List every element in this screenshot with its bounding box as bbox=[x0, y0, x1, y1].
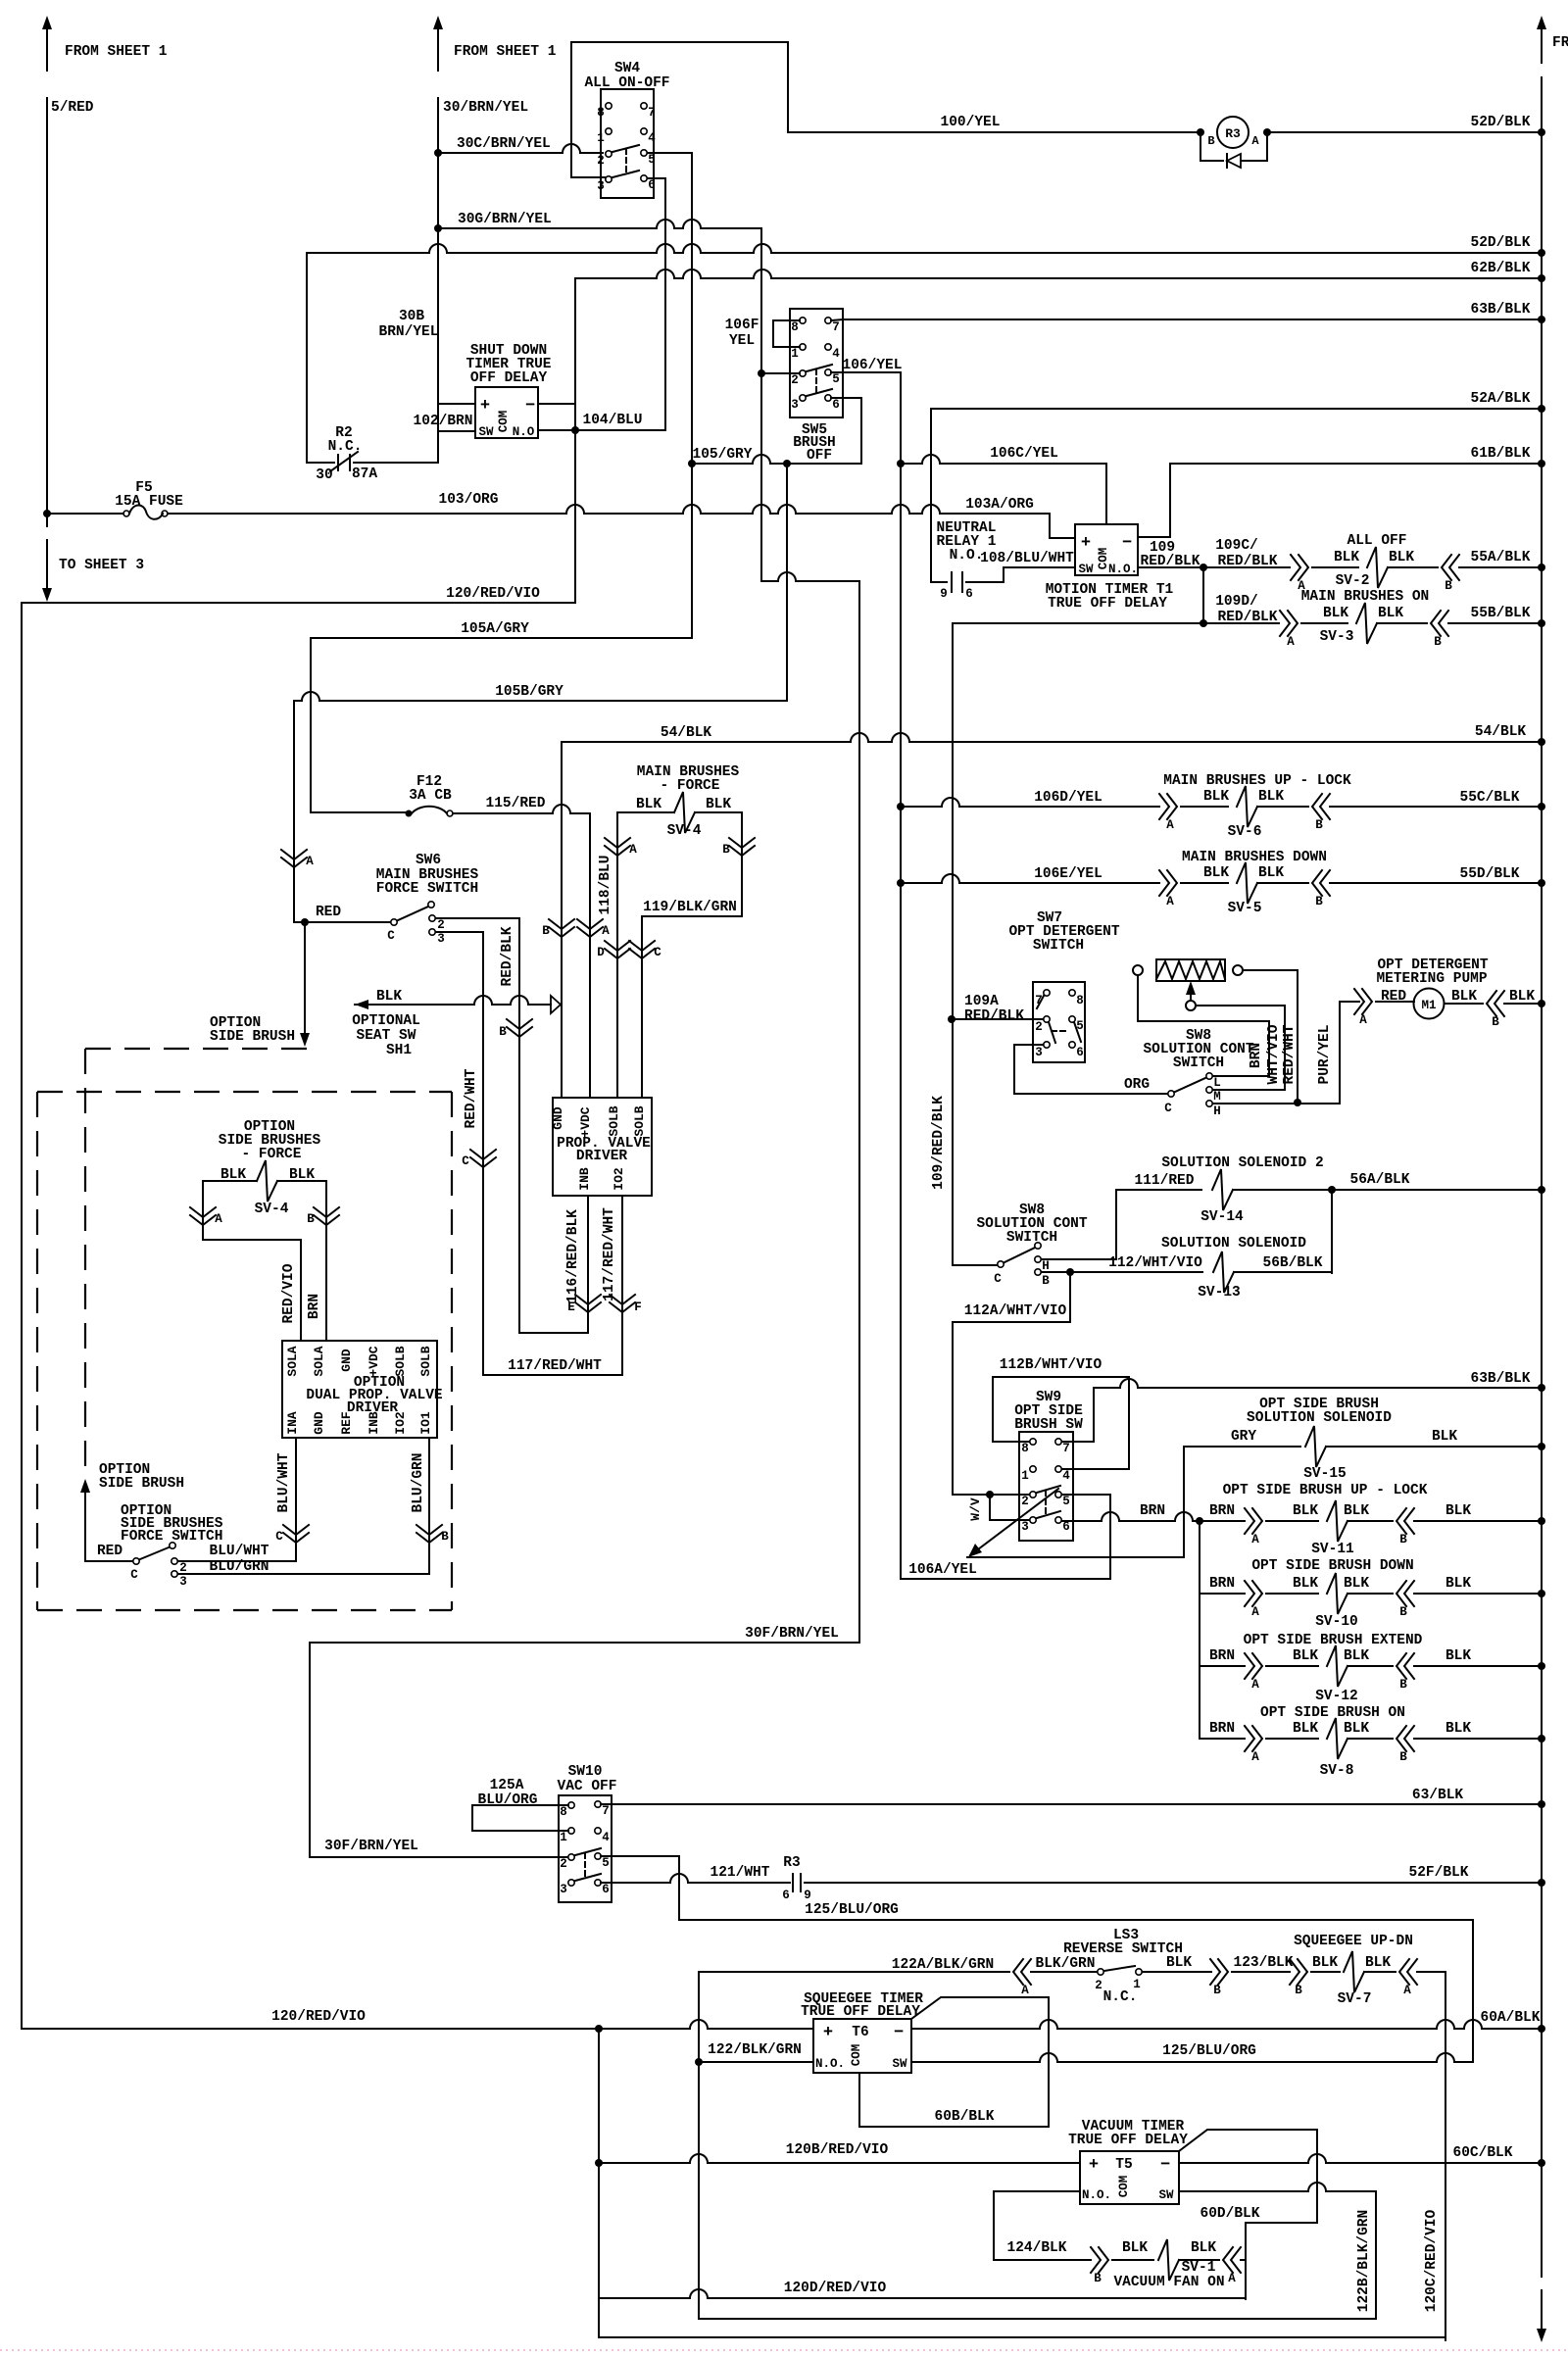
svg-text:BLK: BLK bbox=[1293, 1503, 1318, 1519]
svg-text:B: B bbox=[1399, 1678, 1407, 1692]
svg-text:WHT/VIO: WHT/VIO bbox=[1266, 1024, 1282, 1084]
wire SV-10 segs bbox=[1266, 1593, 1318, 1595]
svg-text:T6: T6 bbox=[852, 2025, 868, 2040]
svg-text:SW: SW bbox=[1158, 2188, 1174, 2202]
svg-text:SOLUTION SOLENOID: SOLUTION SOLENOID bbox=[1161, 1236, 1306, 1252]
svg-text:SOLUTION SOLENOID: SOLUTION SOLENOID bbox=[1247, 1410, 1392, 1426]
svg-text:BLK: BLK bbox=[1389, 550, 1414, 565]
svg-text:A: A bbox=[602, 924, 610, 938]
wire BLU/WHT bbox=[178, 1560, 296, 1562]
wire 112/WHT/VIO bbox=[1042, 1271, 1202, 1273]
wire 30G corner vertical bbox=[760, 228, 762, 581]
pin SW8L-C bbox=[998, 1261, 1004, 1267]
wire SOLB drop bbox=[641, 916, 643, 1098]
svg-text:7: 7 bbox=[1062, 1442, 1070, 1455]
svg-text:30/BRN/YEL: 30/BRN/YEL bbox=[443, 100, 528, 116]
svg-text:B: B bbox=[1492, 1015, 1499, 1029]
svg-text:122A/BLK/GRN: 122A/BLK/GRN bbox=[892, 1957, 994, 1973]
svg-text:+VDC: +VDC bbox=[367, 1346, 381, 1376]
svg-text:2: 2 bbox=[560, 1857, 567, 1871]
node bus junction bbox=[1538, 564, 1545, 571]
svg-text:BLK: BLK bbox=[1334, 550, 1359, 565]
svg-text:3: 3 bbox=[1021, 1520, 1029, 1534]
contact SW8L arm bbox=[1004, 1248, 1035, 1262]
wire 125 drop bbox=[1472, 1920, 1474, 2061]
contact LS3 arm bbox=[1104, 1966, 1135, 1971]
svg-text:DRIVER: DRIVER bbox=[576, 1149, 628, 1164]
svg-text:106E/YEL: 106E/YEL bbox=[1034, 866, 1102, 882]
wire 117 return bbox=[483, 1374, 622, 1376]
svg-text:8: 8 bbox=[560, 1805, 567, 1819]
svg-text:RED/BLK: RED/BLK bbox=[500, 926, 515, 986]
node bus junction bbox=[1538, 128, 1545, 136]
node bus junction bbox=[1538, 1443, 1545, 1450]
svg-text:SW: SW bbox=[1078, 563, 1094, 576]
wire GRY row bbox=[1184, 1446, 1300, 1448]
svg-text:BLK: BLK bbox=[1365, 1955, 1391, 1971]
wire 120B/RED/VIO bbox=[599, 2154, 1080, 2163]
svg-text:SW: SW bbox=[892, 2057, 907, 2071]
wire 120/RED/VIO bottom bbox=[22, 2020, 813, 2029]
svg-text:A: A bbox=[1251, 1750, 1259, 1764]
pin SW7-5 bbox=[1069, 1016, 1075, 1022]
wire SW10 8-1 bracket bbox=[472, 1805, 568, 1831]
svg-text:FR: FR bbox=[1552, 35, 1568, 51]
pin SW4-3 bbox=[606, 176, 612, 182]
wire 61B/BLK bbox=[1170, 463, 1542, 465]
svg-text:7: 7 bbox=[648, 106, 656, 120]
wire 106/YEL to pin5 bbox=[901, 1578, 1110, 1580]
svg-text:55B/BLK: 55B/BLK bbox=[1471, 606, 1531, 621]
svg-text:BLK: BLK bbox=[1445, 1721, 1471, 1737]
wire SV-3 segs bbox=[1301, 622, 1347, 624]
node bus junction bbox=[1538, 879, 1545, 887]
svg-text:1: 1 bbox=[597, 131, 605, 145]
connector C (119) bbox=[629, 941, 655, 958]
svg-text:SV-12: SV-12 bbox=[1315, 1689, 1358, 1704]
border dotted bbox=[0, 2349, 1568, 2351]
svg-text:103/ORG: 103/ORG bbox=[439, 492, 499, 508]
svg-text:120D/RED/VIO: 120D/RED/VIO bbox=[784, 2281, 887, 2296]
svg-text:106A/YEL: 106A/YEL bbox=[908, 1562, 977, 1578]
wire 100/YEL bbox=[788, 131, 1200, 133]
pin SW7-6 bbox=[1069, 1042, 1075, 1048]
solenoid SV-15 bolt bbox=[1305, 1426, 1326, 1467]
fuse F5 bbox=[47, 513, 123, 515]
svg-text:N.O.: N.O. bbox=[950, 548, 984, 564]
svg-text:INA: INA bbox=[285, 1411, 300, 1435]
wire 52A/BLK bbox=[931, 408, 1542, 410]
svg-text:N.O.: N.O. bbox=[1082, 2188, 1111, 2202]
svg-text:IO1: IO1 bbox=[418, 1411, 433, 1435]
svg-text:SV-7: SV-7 bbox=[1338, 1991, 1372, 2007]
pin opt3 bbox=[171, 1571, 177, 1577]
wire jog 593 bbox=[761, 572, 859, 581]
svg-text:OPT SIDE BRUSH EXTEND: OPT SIDE BRUSH EXTEND bbox=[1244, 1633, 1423, 1648]
wire SV-11 segs bbox=[1266, 1520, 1318, 1522]
wire 115/RED bbox=[453, 805, 590, 813]
wire T1 minus up bbox=[1138, 464, 1170, 537]
contact SV-3 bbox=[1280, 611, 1298, 636]
svg-text:OPTIONAL: OPTIONAL bbox=[352, 1013, 420, 1029]
svg-text:OPT SIDE BRUSH UP - LOCK: OPT SIDE BRUSH UP - LOCK bbox=[1223, 1483, 1428, 1498]
svg-text:GND: GND bbox=[312, 1411, 326, 1435]
wire RED/BLK bbox=[436, 917, 519, 919]
svg-text:A: A bbox=[1403, 1984, 1411, 1997]
svg-text:+: + bbox=[823, 2024, 833, 2042]
pin SW10-5 bbox=[595, 1853, 601, 1859]
node R3-A bbox=[1263, 128, 1271, 136]
pin SW10-1 bbox=[568, 1828, 574, 1834]
node 120 junction bbox=[595, 2025, 603, 2033]
node 106D junction bbox=[897, 803, 905, 810]
node bus junction bbox=[1538, 1800, 1545, 1808]
pin SW10-7 bbox=[595, 1801, 601, 1807]
svg-text:MAIN BRUSHES ON: MAIN BRUSHES ON bbox=[1301, 589, 1430, 605]
svg-text:54/BLK: 54/BLK bbox=[1475, 724, 1527, 740]
pot detergent resistor bbox=[1156, 959, 1225, 981]
connector B (116) bbox=[507, 1019, 532, 1037]
contact SV-12 bbox=[1245, 1653, 1262, 1679]
motor M1 bbox=[1414, 989, 1445, 1019]
svg-text:SOLA: SOLA bbox=[285, 1346, 300, 1376]
svg-text:B: B bbox=[1094, 2272, 1102, 2285]
pin SW4-6 bbox=[641, 175, 647, 181]
wire 122/BLK/GRN bbox=[699, 2061, 813, 2063]
svg-text:105A/GRY: 105A/GRY bbox=[461, 621, 529, 637]
wire from-sheet arrow (right) bbox=[1541, 27, 1543, 63]
svg-text:119/BLK/GRN: 119/BLK/GRN bbox=[643, 900, 737, 915]
wire RED/WHT drop bbox=[482, 932, 484, 1375]
svg-text:SOLUTION SOLENOID 2: SOLUTION SOLENOID 2 bbox=[1161, 1155, 1323, 1171]
svg-text:BLK: BLK bbox=[1344, 1503, 1369, 1519]
svg-text:60C/BLK: 60C/BLK bbox=[1453, 2145, 1513, 2161]
node 122 junction bbox=[695, 2058, 703, 2066]
svg-text:3: 3 bbox=[437, 932, 445, 946]
svg-text:SV-13: SV-13 bbox=[1198, 1285, 1241, 1301]
svg-text:BLK: BLK bbox=[376, 989, 402, 1005]
svg-text:105/GRY: 105/GRY bbox=[693, 447, 753, 463]
contact SW5 arm 2-5 bbox=[807, 365, 832, 371]
svg-text:120C/RED/VIO: 120C/RED/VIO bbox=[1424, 2209, 1440, 2312]
switch SW7 box bbox=[1033, 982, 1085, 1062]
pin SW8-L bbox=[1206, 1073, 1212, 1079]
svg-text:52F/BLK: 52F/BLK bbox=[1409, 1865, 1469, 1881]
pin SW9-6 bbox=[1055, 1517, 1061, 1523]
svg-text:SV-15: SV-15 bbox=[1303, 1466, 1347, 1482]
svg-text:RED/VIO: RED/VIO bbox=[281, 1263, 297, 1323]
svg-text:5: 5 bbox=[648, 153, 656, 167]
pin SW8-C bbox=[1168, 1091, 1174, 1097]
svg-text:SH1: SH1 bbox=[386, 1043, 412, 1058]
svg-text:56A/BLK: 56A/BLK bbox=[1350, 1172, 1410, 1188]
wire 118/BLU drop bbox=[616, 812, 618, 1098]
wire 60D loop bbox=[1245, 2223, 1247, 2299]
svg-text:YEL: YEL bbox=[729, 333, 755, 349]
node 56A junction bbox=[1328, 1186, 1336, 1194]
pin SW9-5 bbox=[1055, 1492, 1061, 1497]
wire option B drop bbox=[325, 1181, 327, 1341]
wire GRY riser bbox=[1183, 1447, 1185, 1557]
wire 52D/BLK rail bbox=[307, 244, 1542, 253]
svg-text:SWITCH: SWITCH bbox=[1006, 1230, 1057, 1246]
svg-text:D: D bbox=[597, 946, 605, 959]
svg-text:52D/BLK: 52D/BLK bbox=[1471, 115, 1531, 130]
contact R2 N.C. bbox=[307, 462, 334, 464]
svg-text:SIDE BRUSH: SIDE BRUSH bbox=[99, 1476, 184, 1492]
contact 123-B bbox=[1210, 1959, 1228, 1985]
timer T5 box bbox=[1080, 2151, 1179, 2204]
pin SW10-3 bbox=[568, 1880, 574, 1886]
wire 106/YEL out bbox=[831, 371, 901, 373]
svg-text:A: A bbox=[1287, 635, 1295, 649]
wire SW7 pin3 out bbox=[1014, 1045, 1167, 1094]
svg-text:118/BLU: 118/BLU bbox=[598, 856, 613, 915]
pin SW6-2 bbox=[429, 915, 435, 921]
contact option arm bbox=[140, 1547, 169, 1559]
pin SW9-8 bbox=[1030, 1439, 1036, 1445]
wire 112A path bbox=[1069, 1272, 1071, 1322]
contact SV-10 bbox=[1245, 1581, 1262, 1606]
node bus junction bbox=[1538, 316, 1545, 323]
wire 54/BLK rail bbox=[562, 733, 1542, 742]
wire 5/RED vertical bus bbox=[46, 98, 48, 526]
svg-text:3: 3 bbox=[179, 1575, 187, 1589]
svg-text:3: 3 bbox=[597, 179, 605, 193]
svg-text:A: A bbox=[306, 855, 314, 868]
svg-text:BLK: BLK bbox=[1258, 865, 1284, 881]
svg-text:6: 6 bbox=[965, 587, 973, 601]
node 109D junction bbox=[1200, 619, 1207, 627]
svg-text:8: 8 bbox=[791, 320, 799, 334]
node 109 junction bbox=[1200, 564, 1207, 571]
svg-text:108/BLU/WHT: 108/BLU/WHT bbox=[980, 551, 1074, 566]
svg-text:SV-14: SV-14 bbox=[1200, 1209, 1244, 1225]
contact SW9 arm 3 bbox=[1037, 1511, 1060, 1518]
svg-text:GRY: GRY bbox=[1231, 1429, 1256, 1445]
node 105 junction b bbox=[783, 460, 791, 467]
svg-text:SV-10: SV-10 bbox=[1315, 1614, 1358, 1630]
svg-text:BRN/YEL: BRN/YEL bbox=[379, 324, 439, 340]
svg-text:52D/BLK: 52D/BLK bbox=[1471, 235, 1531, 251]
pin SW5-1 bbox=[800, 344, 806, 350]
wire to-sheet-3 arrow bbox=[46, 540, 48, 588]
svg-text:VACUUM FAN ON: VACUUM FAN ON bbox=[1113, 2275, 1224, 2290]
svg-text:BRUSH SW: BRUSH SW bbox=[1014, 1417, 1083, 1433]
pin SW10-2 bbox=[568, 1854, 574, 1860]
svg-text:C: C bbox=[462, 1154, 469, 1168]
svg-text:COM: COM bbox=[497, 411, 511, 433]
svg-text:C: C bbox=[130, 1568, 138, 1582]
wire RED/WHT (pot right) bbox=[1243, 969, 1298, 971]
svg-text:B: B bbox=[1399, 1533, 1407, 1546]
svg-text:C: C bbox=[1164, 1102, 1172, 1115]
wire 104/BLU bbox=[538, 429, 665, 431]
svg-text:N.O: N.O bbox=[513, 425, 535, 439]
connector C (117) bbox=[470, 1150, 496, 1167]
wire RED bbox=[294, 921, 390, 923]
wire SV-11 row bbox=[1062, 1512, 1200, 1521]
node bus junction bbox=[1538, 1186, 1545, 1194]
svg-text:6: 6 bbox=[648, 178, 656, 192]
node bus junction bbox=[1538, 274, 1545, 282]
node 112A junction bbox=[1066, 1268, 1074, 1276]
svg-text:B: B bbox=[1434, 635, 1442, 649]
svg-text:A: A bbox=[1021, 1984, 1029, 1997]
wire SW4 feed top bbox=[571, 42, 788, 177]
svg-text:60B/BLK: 60B/BLK bbox=[935, 2109, 995, 2125]
connector B (119) bbox=[729, 838, 755, 856]
contact SW5 dashed link bbox=[815, 369, 817, 393]
pin SW9-2 bbox=[1030, 1492, 1036, 1497]
svg-text:RED: RED bbox=[316, 905, 341, 920]
node R3-B bbox=[1197, 128, 1204, 136]
pin optC bbox=[133, 1558, 139, 1564]
contact neutral relay bbox=[931, 573, 947, 582]
svg-text:109/RED/BLK: 109/RED/BLK bbox=[931, 1096, 947, 1190]
svg-text:SIDE BRUSH: SIDE BRUSH bbox=[210, 1029, 295, 1045]
connector E bbox=[575, 1295, 601, 1312]
svg-text:SQUEEGEE UP-DN: SQUEEGEE UP-DN bbox=[1294, 1934, 1413, 1949]
svg-text:2: 2 bbox=[437, 918, 445, 932]
wire pin7 riser bbox=[1062, 1388, 1094, 1442]
pin SW4-1 bbox=[606, 128, 612, 134]
svg-text:7: 7 bbox=[602, 1804, 610, 1818]
svg-text:106C/YEL: 106C/YEL bbox=[990, 446, 1058, 462]
node bus junction bbox=[1538, 405, 1545, 413]
svg-text:6: 6 bbox=[602, 1883, 610, 1896]
wire 120/RED/VIO top bbox=[22, 602, 575, 604]
wire T5 diag bbox=[1179, 2130, 1317, 2151]
svg-text:6: 6 bbox=[1062, 1520, 1070, 1534]
wire 105/GRY bbox=[692, 455, 861, 464]
svg-text:A: A bbox=[1251, 1678, 1259, 1692]
svg-text:BLK: BLK bbox=[1293, 1648, 1318, 1664]
svg-text:2: 2 bbox=[1095, 1979, 1102, 1992]
timer motion T1 box bbox=[1075, 524, 1138, 575]
wire M1 feed bbox=[1376, 1001, 1414, 1003]
svg-text:55C/BLK: 55C/BLK bbox=[1460, 790, 1520, 806]
node bus junction bbox=[1538, 2025, 1545, 2033]
timer T6 box bbox=[813, 2019, 911, 2073]
svg-text:30C/BRN/YEL: 30C/BRN/YEL bbox=[457, 136, 551, 152]
wire option side brush leader bbox=[304, 922, 306, 1035]
pin SW4-5 bbox=[641, 150, 647, 156]
svg-text:15A FUSE: 15A FUSE bbox=[115, 494, 183, 510]
svg-text:M: M bbox=[1213, 1090, 1221, 1104]
svg-text:A: A bbox=[1251, 134, 1259, 148]
svg-text:BLK: BLK bbox=[1432, 1429, 1457, 1445]
svg-text:SOLB: SOLB bbox=[632, 1105, 647, 1136]
ic prop valve driver bbox=[553, 1098, 652, 1196]
svg-text:9: 9 bbox=[940, 587, 948, 601]
svg-text:B: B bbox=[441, 1530, 449, 1544]
svg-text:BLK: BLK bbox=[1344, 1648, 1369, 1664]
svg-text:62B/BLK: 62B/BLK bbox=[1471, 261, 1531, 276]
svg-text:METERING PUMP: METERING PUMP bbox=[1376, 971, 1487, 987]
wire T5 SW out bbox=[1179, 2183, 1376, 2191]
timer shutdown box bbox=[475, 387, 538, 438]
wire 111 riser bbox=[1042, 1258, 1116, 1260]
wire H row bbox=[1213, 1103, 1340, 1104]
svg-text:BLK: BLK bbox=[1323, 606, 1348, 621]
svg-text:BRN: BRN bbox=[307, 1294, 322, 1319]
svg-text:4: 4 bbox=[602, 1831, 610, 1844]
svg-text:3: 3 bbox=[1035, 1046, 1043, 1059]
svg-text:RED/WHT: RED/WHT bbox=[464, 1068, 479, 1128]
relay coil R3 bbox=[1217, 117, 1249, 148]
wire 103/ORG bbox=[168, 505, 1050, 514]
svg-text:30F/BRN/YEL: 30F/BRN/YEL bbox=[745, 1626, 839, 1642]
node 106C junction bbox=[897, 460, 905, 467]
breaker F12 bbox=[406, 810, 413, 817]
pin SW8-H bbox=[1206, 1101, 1212, 1106]
contact SW5 arm 3-6 bbox=[807, 389, 832, 396]
contact SW7 arm 5 bbox=[1074, 1022, 1081, 1042]
wire SV-12 row bbox=[1200, 1665, 1245, 1667]
svg-text:−: − bbox=[894, 2024, 904, 2042]
svg-text:54/BLK: 54/BLK bbox=[661, 725, 712, 741]
svg-text:TRUE OFF DELAY: TRUE OFF DELAY bbox=[1068, 2133, 1188, 2148]
pin SW4-2 bbox=[606, 151, 612, 157]
svg-text:30B: 30B bbox=[399, 309, 424, 324]
svg-text:REF: REF bbox=[339, 1411, 354, 1435]
pin SW6-C bbox=[391, 919, 397, 925]
pin SW5-5 bbox=[825, 369, 831, 375]
wire option A drop bbox=[202, 1181, 204, 1240]
contact SW9 dashed link bbox=[1045, 1491, 1047, 1516]
wire 105B vertical bbox=[786, 464, 788, 701]
svg-text:SWITCH: SWITCH bbox=[1033, 938, 1084, 954]
svg-text:−: − bbox=[1122, 534, 1132, 553]
svg-text:+: + bbox=[1081, 534, 1091, 553]
svg-text:2: 2 bbox=[597, 154, 605, 168]
pin SW4-8 bbox=[606, 103, 612, 109]
wire 62B/BLK rail bbox=[575, 270, 1542, 278]
wire 63B/BLK rail bbox=[844, 319, 1542, 320]
pin SW9-4 bbox=[1055, 1466, 1061, 1472]
svg-text:BLK: BLK bbox=[1191, 2240, 1216, 2256]
svg-text:117/RED/WHT: 117/RED/WHT bbox=[508, 1358, 602, 1374]
svg-text:BLU/WHT: BLU/WHT bbox=[210, 1544, 269, 1559]
boundary option box bbox=[37, 1091, 452, 1093]
svg-text:A: A bbox=[1251, 1533, 1259, 1546]
wire SV-8 row bbox=[1200, 1738, 1245, 1740]
diode R3 flyback bbox=[1200, 132, 1223, 161]
wire 63B row bbox=[1094, 1379, 1542, 1388]
switch SW10 box bbox=[559, 1795, 612, 1902]
wire SW5 pin7 stub bbox=[831, 319, 844, 320]
svg-text:111/RED: 111/RED bbox=[1135, 1173, 1195, 1189]
svg-text:1: 1 bbox=[1021, 1469, 1029, 1483]
contact SW10 arm 2-5 bbox=[575, 1848, 601, 1855]
svg-text:55A/BLK: 55A/BLK bbox=[1471, 550, 1531, 565]
svg-text:104/BLU: 104/BLU bbox=[583, 413, 643, 428]
svg-text:- FORCE: - FORCE bbox=[242, 1147, 302, 1162]
node bus junction bbox=[1538, 249, 1545, 257]
node bus junction bbox=[1538, 460, 1545, 467]
svg-text:+: + bbox=[1089, 2156, 1099, 2175]
svg-text:BRN: BRN bbox=[1209, 1503, 1235, 1519]
svg-text:C: C bbox=[654, 946, 661, 959]
svg-text:L: L bbox=[1213, 1076, 1221, 1090]
node H junction bbox=[1294, 1099, 1301, 1106]
pin SW8L-B bbox=[1035, 1269, 1041, 1275]
wire 122 trunk bbox=[698, 1972, 700, 2319]
node W/V junction bbox=[986, 1491, 994, 1498]
wire SW10 pin6 out bbox=[601, 1874, 790, 1883]
wire SW4 pin5 out bbox=[648, 152, 692, 154]
